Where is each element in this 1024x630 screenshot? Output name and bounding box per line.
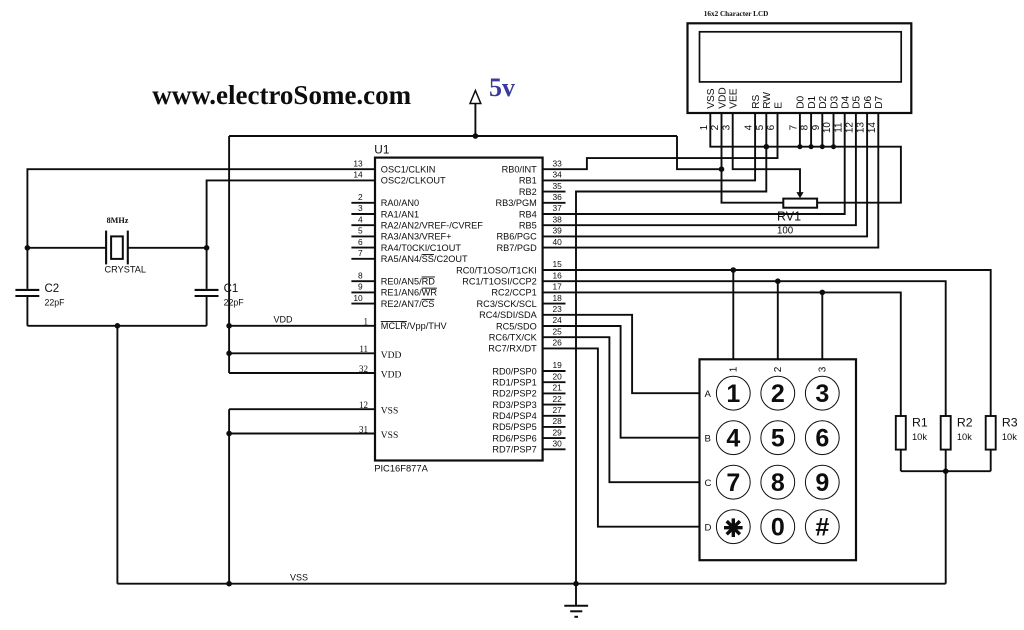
svg-text:RC1/T1OSI/CCP2: RC1/T1OSI/CCP2 [462,277,537,287]
svg-text:VEE: VEE [729,88,740,109]
wire LCD E to RB0 [543,113,778,169]
wire VDD right branch [677,136,722,169]
wire RC2 to column3 and R1 [543,292,901,416]
node column1 junction [731,267,737,273]
wire keypad column 1 [732,270,734,359]
svg-text:10k: 10k [1002,432,1017,442]
node VDD MCLR junction [226,323,232,329]
svg-text:32: 32 [359,364,368,374]
svg-text:11: 11 [359,344,368,354]
svg-text:RC6/TX/CK: RC6/TX/CK [489,333,538,343]
svg-text:RB0/INT: RB0/INT [502,165,538,175]
svg-text:D1: D1 [807,95,818,108]
svg-text:1: 1 [699,124,710,130]
svg-text:27: 27 [553,405,563,415]
svg-text:100: 100 [777,226,794,237]
svg-text:7: 7 [358,248,363,258]
svg-text:14: 14 [353,170,363,180]
svg-text:VSS: VSS [381,431,398,441]
svg-text:20: 20 [553,371,563,381]
svg-text:8: 8 [358,270,363,280]
wire RC1 to column2 and R2 [543,281,946,416]
svg-text:C1: C1 [224,283,239,295]
wire capacitor ground line [27,325,206,327]
svg-text:VSS: VSS [381,407,398,417]
svg-text:PIC16F877A: PIC16F877A [374,462,428,473]
svg-text:10k: 10k [912,432,927,442]
wire LCD D4 to RB4 [543,113,845,214]
svg-text:26: 26 [553,338,563,348]
svg-text:1: 1 [726,380,740,408]
svg-text:2: 2 [773,366,784,372]
svg-text:D: D [705,522,712,533]
svg-text:D5: D5 [852,95,863,108]
wire VDD to MCLR [229,325,375,327]
svg-text:RD4/PSP4: RD4/PSP4 [492,411,536,421]
wires LCD D0-D3 grounded [799,113,801,147]
svg-text:35: 35 [553,181,563,191]
wire LCD VEE to wiper [733,113,800,194]
wire RC0 to column1 and R3 [543,270,991,416]
wire VSS pin12 [229,408,375,410]
svg-text:3: 3 [818,366,829,372]
svg-text:8: 8 [771,469,785,497]
node crystal right junction [204,245,210,251]
svg-text:VDD: VDD [274,315,294,325]
svg-text:29: 29 [553,427,563,437]
svg-text:D6: D6 [863,95,874,108]
svg-text:RC2/CCP1: RC2/CCP1 [491,288,536,298]
svg-text:1: 1 [364,317,369,327]
svg-text:RA5/AN4/SS/C2OUT: RA5/AN4/SS/C2OUT [381,254,468,264]
svg-text:4: 4 [744,124,755,130]
svg-text:C2: C2 [45,283,60,295]
U1 left pin stubs [351,202,375,204]
svg-text:E: E [773,102,784,109]
wire VDD left vertical [228,136,230,373]
svg-text:21: 21 [553,383,563,393]
svg-text:5v: 5v [489,73,515,102]
wire OSC2 [207,180,375,247]
svg-text:6: 6 [815,425,829,453]
svg-text:3: 3 [815,380,829,408]
svg-text:12: 12 [359,400,368,410]
wire keypad column 3 [821,292,823,359]
svg-text:D3: D3 [829,95,840,108]
wire RC6 keypad row C [543,337,700,482]
svg-text:OSC2/CLKOUT: OSC2/CLKOUT [381,176,446,186]
svg-text:2: 2 [710,124,721,130]
wire VSS pin31 [229,433,375,435]
svg-text:16x2 Character LCD: 16x2 Character LCD [704,10,769,18]
svg-text:RA3/AN3/VREF+: RA3/AN3/VREF+ [381,232,452,242]
svg-text:RA1/AN1: RA1/AN1 [381,209,419,219]
svg-text:RB1: RB1 [519,176,537,186]
svg-text:VDD: VDD [717,87,728,109]
svg-text:VDD: VDD [381,371,402,381]
svg-text:23: 23 [553,304,563,314]
svg-text:R1: R1 [912,416,928,430]
svg-text:22pF: 22pF [224,298,245,308]
svg-text:R3: R3 [1002,416,1018,430]
svg-text:9: 9 [815,469,829,497]
svg-text:D0: D0 [796,95,807,108]
svg-text:D7: D7 [874,95,885,108]
wire LCD VSS line [710,113,901,203]
capacitor C2 [26,248,28,289]
node LCD VDD junction [719,166,725,172]
svg-text:RB7/PGD: RB7/PGD [496,243,537,253]
svg-text:OSC1/CLKIN: OSC1/CLKIN [381,165,436,175]
svg-text:U1: U1 [374,142,389,156]
wire LCD RS to RB1 [543,113,756,180]
svg-text:6: 6 [766,124,777,130]
node VDD pin11 junction [226,351,232,357]
wire LCD RW to ground [576,113,766,584]
svg-text:D2: D2 [818,95,829,108]
svg-text:RA0/AN0: RA0/AN0 [381,198,419,208]
wire LCD VDD pin [722,113,784,203]
svg-text:36: 36 [553,192,563,202]
svg-text:RB3/PGM: RB3/PGM [495,198,536,208]
svg-text:5: 5 [358,226,363,236]
wire RC4 keypad row A [543,315,700,393]
svg-text:10: 10 [822,122,833,134]
svg-text:24: 24 [553,315,563,325]
svg-text:2: 2 [771,380,785,408]
svg-text:4: 4 [726,425,740,453]
node capacitor ground junction [115,323,121,329]
svg-text:3: 3 [721,124,732,130]
wire crystal right [128,247,207,249]
node column3 junction [820,290,826,296]
svg-text:A: A [705,389,712,400]
crystal X1 8MHz [105,231,107,265]
svg-text:VDD: VDD [381,351,402,361]
svg-text:2: 2 [358,192,363,202]
capacitor C1 [206,248,208,289]
svg-text:5: 5 [755,124,766,130]
svg-text:22: 22 [553,394,563,404]
svg-text:30: 30 [553,439,563,449]
svg-text:#: # [815,514,829,542]
svg-text:8MHz: 8MHz [107,216,129,225]
chip U1 PIC16F877A box [375,158,543,461]
svg-text:RD7/PSP7: RD7/PSP7 [492,445,536,455]
wire resistor common drop [945,471,947,584]
pot RV1 wiper arrow [796,192,803,198]
svg-text:5: 5 [771,425,785,453]
svg-text:40: 40 [553,237,563,247]
svg-text:RD5/PSP5: RD5/PSP5 [492,422,536,432]
svg-text:18: 18 [553,293,563,303]
svg-text:RA4/T0CKI/C1OUT: RA4/T0CKI/C1OUT [381,243,462,253]
svg-text:7: 7 [789,124,800,130]
node column2 junction [775,278,781,284]
pot RV1 body [783,199,817,208]
svg-text:4: 4 [358,214,363,224]
svg-text:www.electroSome.com: www.electroSome.com [152,80,411,110]
svg-text:6: 6 [358,237,363,247]
svg-text:22pF: 22pF [45,298,66,308]
svg-text:RE1/AN6/WR: RE1/AN6/WR [381,288,438,298]
wire VSS left vertical [228,409,230,584]
svg-text:RB5: RB5 [519,221,537,231]
resistor R3 10k [986,416,996,450]
wire RC7 keypad row D [543,348,700,526]
svg-text:0: 0 [771,514,785,542]
LCD screen [700,32,902,82]
wire OSC1 [27,169,375,248]
svg-text:37: 37 [553,203,563,213]
svg-text:9: 9 [811,124,822,130]
svg-text:25: 25 [553,326,563,336]
svg-text:D4: D4 [841,95,852,108]
svg-text:17: 17 [553,282,563,292]
svg-text:R2: R2 [957,416,973,430]
svg-text:VSS: VSS [706,88,717,109]
svg-text:9: 9 [358,282,363,292]
svg-text:14: 14 [867,122,878,134]
wire VDD pin11 [229,352,375,354]
svg-text:1: 1 [729,366,740,372]
svg-text:B: B [705,433,711,444]
svg-text:RE2/AN7/CS: RE2/AN7/CS [381,299,435,309]
svg-text:10: 10 [353,293,363,303]
svg-text:12: 12 [845,122,856,134]
U1 right pin stubs [543,191,566,193]
node crystal left junction [25,245,31,251]
wire keypad column 2 [777,281,779,359]
svg-text:RD2/PSP2: RD2/PSP2 [492,389,536,399]
keypad buttons [716,376,750,410]
svg-text:RW: RW [762,92,773,109]
svg-text:3: 3 [358,203,363,213]
node VSS pin31 junction [226,431,232,437]
svg-text:RB2: RB2 [519,187,537,197]
resistor R1 10k [896,416,906,450]
wire R3 bottom [990,450,992,472]
svg-text:15: 15 [553,259,563,269]
svg-text:RB6/PGC: RB6/PGC [496,232,537,242]
node rail VSS junction [226,581,232,587]
svg-text:VSS: VSS [290,573,308,583]
svg-text:RB4: RB4 [519,209,537,219]
wire VSS bottom rail [117,583,945,585]
wire R1 bottom [900,450,902,472]
svg-text:RC4/SDI/SDA: RC4/SDI/SDA [479,310,538,320]
node rail ground junction [573,581,579,587]
wire VDD top rail [229,135,677,137]
svg-text:39: 39 [553,226,563,236]
wire LCD D6 to RB6 [543,113,868,236]
svg-text:11: 11 [833,122,844,133]
power 5v arrow [474,103,476,136]
wire VDD pin32 [229,372,375,374]
svg-text:28: 28 [553,416,563,426]
svg-text:7: 7 [726,469,740,497]
wire RC5 keypad row B [543,326,700,438]
svg-text:10k: 10k [957,432,972,442]
svg-text:38: 38 [553,214,563,224]
resistor R2 10k [941,416,951,450]
svg-text:RC5/SDO: RC5/SDO [496,321,537,331]
svg-text:RD6/PSP6: RD6/PSP6 [492,433,536,443]
svg-text:16: 16 [553,270,563,280]
svg-text:13: 13 [353,158,363,168]
node 5v rail junction [473,133,479,139]
svg-text:RD3/PSP3: RD3/PSP3 [492,400,536,410]
svg-text:MCLR/Vpp/THV: MCLR/Vpp/THV [381,321,448,331]
svg-text:RC0/T1OSO/T1CKI: RC0/T1OSO/T1CKI [456,265,537,275]
svg-text:13: 13 [856,122,867,134]
svg-text:8: 8 [800,124,811,130]
svg-text:RD1/PSP1: RD1/PSP1 [492,378,536,388]
node RW ground junction [764,144,770,150]
node resistor common junction [943,468,949,474]
svg-text:19: 19 [553,360,563,370]
svg-text:RV1: RV1 [777,210,801,224]
wire resistor common [901,470,991,472]
svg-text:C: C [705,478,712,489]
svg-text:CRYSTAL: CRYSTAL [105,265,147,275]
wire R2 bottom [945,450,947,472]
svg-text:34: 34 [553,170,563,180]
keypad box [700,359,857,560]
svg-text:RD0/PSP0: RD0/PSP0 [492,366,536,376]
svg-text:33: 33 [553,158,563,168]
wire crystal left [27,247,106,249]
svg-text:RE0/AN5/RD: RE0/AN5/RD [381,277,435,287]
svg-text:RS: RS [751,94,762,108]
wire LCD D5 to RB5 [543,113,856,225]
svg-text:RC7/RX/DT: RC7/RX/DT [488,344,537,354]
svg-text:31: 31 [359,424,368,434]
ground symbol [575,584,577,606]
LCD module box [688,23,912,113]
svg-text:RA2/AN2/VREF-/CVREF: RA2/AN2/VREF-/CVREF [381,221,483,231]
wire LCD D7 to RB7 [543,113,879,248]
wire capacitor ground drop [116,326,118,584]
svg-text:RC3/SCK/SCL: RC3/SCK/SCL [477,299,537,309]
nodes D0-D3 junctions [797,144,802,149]
